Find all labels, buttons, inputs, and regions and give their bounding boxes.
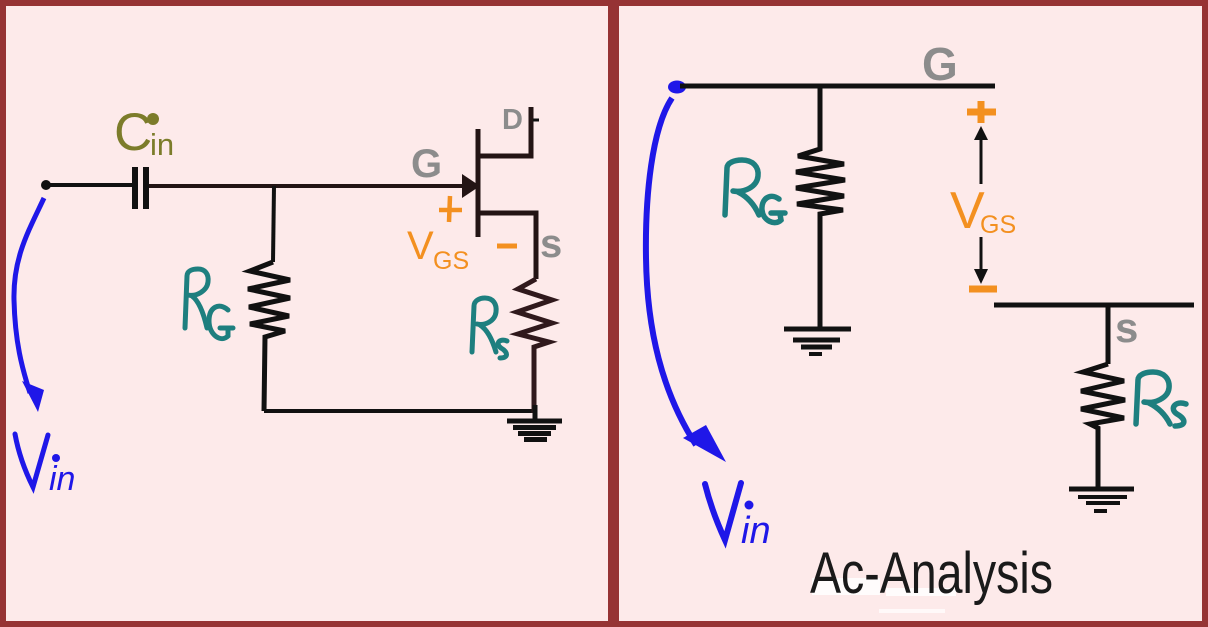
svg-text:s: s xyxy=(540,222,562,266)
arrow VGS measurement (double-headed) xyxy=(974,126,988,284)
svg-text:D: D xyxy=(502,104,523,136)
resistor RG (left) xyxy=(248,262,290,411)
wire input dot to gate node (right) xyxy=(680,84,995,89)
label Ac-Analysis xyxy=(810,541,1053,613)
svg-text:G: G xyxy=(922,38,958,90)
transistor Q1 channel bar xyxy=(476,129,481,237)
label RG (left) xyxy=(185,269,233,339)
wire RG bottom to RS bottom (ground rail) xyxy=(264,409,535,413)
resistor RS (left) xyxy=(517,279,552,413)
resistor RG (right) xyxy=(796,86,845,327)
transistor Q1 drain lead xyxy=(480,107,531,156)
wire source rail down to RS (right) xyxy=(1106,305,1111,364)
label - polarity of VGS (right) xyxy=(969,286,997,293)
svg-text:G: G xyxy=(411,142,442,186)
label VGS (right) xyxy=(950,182,1016,240)
resistor RS (right) xyxy=(1081,364,1125,487)
transistor Q1 drain top tick xyxy=(533,119,539,122)
arrow Vin (left) xyxy=(14,198,44,412)
label Vin (right) xyxy=(705,483,771,552)
wire input dot to capacitor Cin xyxy=(50,183,132,187)
svg-text:V: V xyxy=(407,224,434,268)
transistor Q1 (JFET) gate arrowhead xyxy=(462,174,480,198)
node gate junction (left) xyxy=(273,186,274,262)
ground of RS (right) xyxy=(1069,489,1134,511)
transistor Q1 source lead xyxy=(480,213,536,279)
label Cin xyxy=(114,103,174,162)
svg-text:GS: GS xyxy=(433,247,469,275)
ground (left) xyxy=(507,405,562,440)
svg-text:in: in xyxy=(49,460,75,498)
wire source node rail (right) xyxy=(994,303,1194,308)
svg-text:GS: GS xyxy=(980,211,1016,239)
label VGS (left) xyxy=(407,224,469,275)
arrow Vin (right) xyxy=(646,98,726,462)
node Vin input dot (left) xyxy=(41,180,51,190)
node input dot (right) xyxy=(668,81,686,94)
wire Cin to gate of Q1 xyxy=(149,184,464,188)
label RS (left) xyxy=(472,298,507,358)
label + polarity of VGS (left) xyxy=(439,196,462,222)
svg-text:C: C xyxy=(114,103,152,162)
ground of RG (right) xyxy=(784,329,851,354)
label + polarity of VGS (right) xyxy=(967,101,996,123)
label - polarity of VGS (left) xyxy=(497,244,517,249)
capacitor C_in xyxy=(135,167,146,209)
label Vin (left) xyxy=(15,434,75,498)
svg-text:Ac-Analysis: Ac-Analysis xyxy=(810,541,1053,606)
label RG (right) xyxy=(725,160,785,223)
svg-text:s: s xyxy=(1115,304,1138,351)
svg-text:in: in xyxy=(741,510,771,552)
svg-text:in: in xyxy=(150,127,174,162)
label RS (right) xyxy=(1136,372,1186,426)
